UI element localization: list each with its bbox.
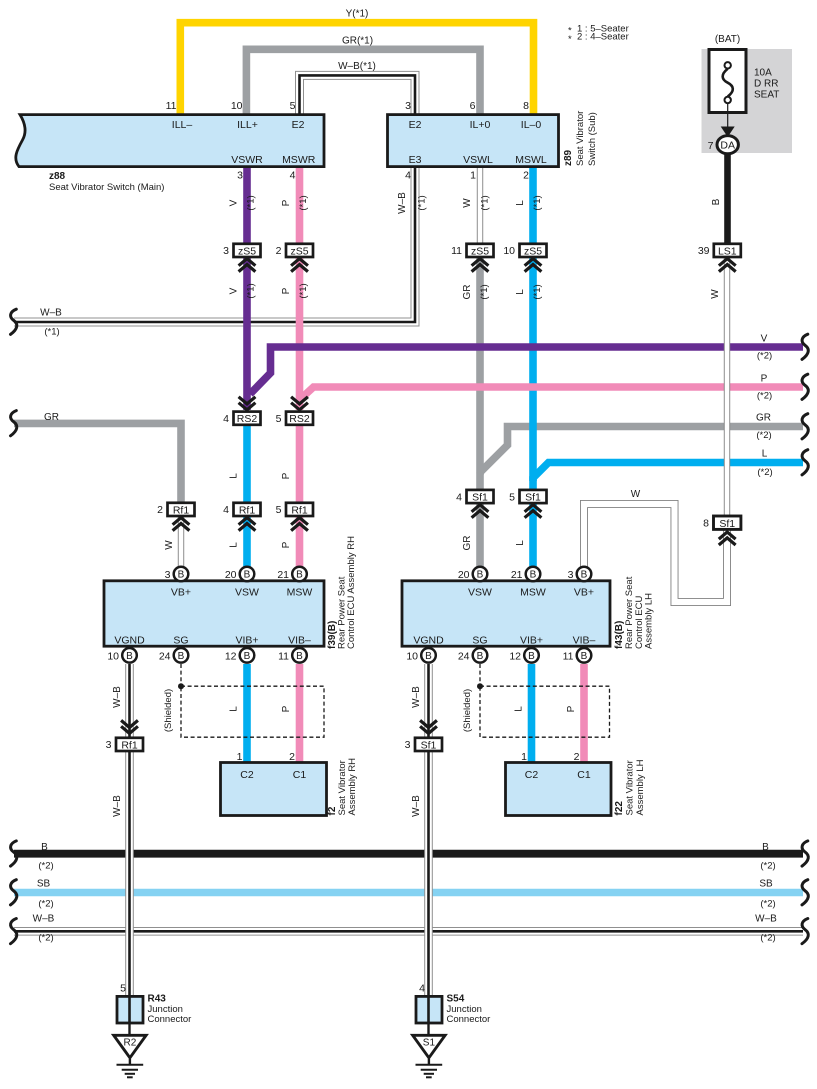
chevron below Sf1-8 <box>719 532 736 545</box>
svg-text:10: 10 <box>107 651 119 663</box>
connector 8 Sf1 box <box>714 516 741 529</box>
svg-text:RS2: RS2 <box>237 413 258 425</box>
ECU LH pin circle 24 B <box>473 648 488 663</box>
connector 10 zS5 box <box>520 244 547 257</box>
svg-text:Sf1: Sf1 <box>525 492 541 504</box>
connector 4 RS2 box <box>234 412 261 425</box>
svg-text:L: L <box>515 200 526 206</box>
connector 3 zS5 box <box>234 244 261 257</box>
shield junction dot RH <box>178 683 184 689</box>
svg-text:MSW: MSW <box>520 587 546 599</box>
svg-text:W–B: W–B <box>397 192 408 214</box>
wire W-B(*1) from z89 pin 4 to left break <box>14 164 415 322</box>
svg-text:GR: GR <box>756 413 771 424</box>
svg-text:W–B: W–B <box>411 686 422 708</box>
svg-text:10: 10 <box>503 245 515 257</box>
ECU RH pin circle 12 B <box>240 648 255 663</box>
svg-text:(*2): (*2) <box>760 860 775 871</box>
svg-text:C2: C2 <box>240 769 254 781</box>
svg-text:zS5: zS5 <box>524 245 542 257</box>
svg-text:4: 4 <box>456 491 462 503</box>
switch z89 box <box>388 115 559 167</box>
battery area background <box>702 49 793 153</box>
svg-text:(*2): (*2) <box>757 390 772 401</box>
svg-text:4: 4 <box>419 983 425 995</box>
ECU LH pin circle 12 B <box>524 648 539 663</box>
svg-text:1: 1 <box>521 751 527 763</box>
svg-text:P: P <box>281 287 292 294</box>
wire W-B from ECU RH VGND to Rf1-3 <box>125 664 134 738</box>
junction connector S54 box <box>416 996 442 1023</box>
break symbol W-B bus right <box>802 919 808 944</box>
svg-text:2 : 4–Seater: 2 : 4–Seater <box>577 32 629 43</box>
ECU RH pin circle 20 B <box>240 567 255 582</box>
svg-text:Rf1: Rf1 <box>121 739 138 751</box>
svg-text:ILL–: ILL– <box>172 119 193 131</box>
svg-text:(*1): (*1) <box>298 283 309 298</box>
svg-text:4: 4 <box>223 504 229 516</box>
svg-text:MSW: MSW <box>287 587 313 599</box>
svg-text:P: P <box>761 374 768 385</box>
svg-text:(*1): (*1) <box>532 284 543 299</box>
wire stripe through R43 <box>128 996 131 1023</box>
wire GR from left break to connector Rf1-2 <box>14 423 181 503</box>
svg-text:L: L <box>515 289 526 295</box>
svg-text:L: L <box>229 473 240 479</box>
svg-text:z89: z89 <box>563 149 574 166</box>
svg-text:S1: S1 <box>423 1037 436 1048</box>
svg-text:Control ECU Assembly RH: Control ECU Assembly RH <box>346 536 357 649</box>
shield dashed line from SG LH <box>479 664 481 685</box>
svg-text:W: W <box>710 289 721 299</box>
ECU LH pin circle 20 B <box>473 567 488 582</box>
svg-text:SB: SB <box>759 878 773 889</box>
wire from R43 to ground triangle R2 <box>128 1023 130 1035</box>
svg-text:4: 4 <box>405 170 411 182</box>
wire P pink from z88 pin 4 through zS5-2 to RS2-5 with P(*2) branch <box>300 165 804 567</box>
wire GR from Sf1-4 to ECU LH pin 20 <box>476 504 484 568</box>
svg-text:(*2): (*2) <box>38 898 53 909</box>
svg-text:Assembly RH: Assembly RH <box>347 758 358 816</box>
svg-text:L: L <box>229 706 240 712</box>
ECU LH pin circle 21 B <box>526 567 541 582</box>
chevron above RS2-4 <box>239 397 256 410</box>
svg-text:11: 11 <box>166 100 177 112</box>
break symbol B bus left <box>11 841 17 866</box>
svg-text:1: 1 <box>237 751 243 763</box>
ECU RH pin circle 21 B <box>292 567 307 582</box>
svg-text:W: W <box>462 198 473 208</box>
wire W-B from ECU LH VGND to Sf1-3 <box>424 664 433 738</box>
connector 4 Rf1 box <box>234 503 261 516</box>
svg-text:1: 1 <box>470 170 476 182</box>
switch z88 box <box>16 115 324 167</box>
svg-text:Seat Vibrator Switch (Main): Seat Vibrator Switch (Main) <box>49 182 164 193</box>
chevron below Sf1-4 <box>472 505 489 518</box>
svg-text:V: V <box>229 287 240 294</box>
junction connector R43 box <box>117 996 143 1023</box>
ground symbol below S1 <box>416 1059 443 1077</box>
wire W-B from Sf1-3 down through buses to S54 <box>424 751 433 997</box>
svg-text:7: 7 <box>708 140 714 152</box>
bus wire B (*2) <box>14 850 803 858</box>
connector 39 LS1 box <box>714 244 741 257</box>
svg-text:2: 2 <box>574 751 580 763</box>
svg-text:SEAT: SEAT <box>754 90 779 101</box>
svg-text:Connector: Connector <box>148 1014 192 1025</box>
shield dashed line from SG RH <box>180 664 182 685</box>
svg-text:(BAT): (BAT) <box>715 34 740 45</box>
seat vibrator assembly RH box f2 <box>221 763 327 816</box>
svg-text:2: 2 <box>157 504 163 516</box>
svg-text:W–B: W–B <box>112 795 123 817</box>
svg-text:6: 6 <box>470 100 476 112</box>
svg-text:GR: GR <box>44 412 59 423</box>
ECU RH pin circle 11 B <box>292 648 307 663</box>
svg-text:B: B <box>41 842 48 853</box>
svg-text:MSWL: MSWL <box>515 154 547 166</box>
seat vibrator assembly LH box f22 <box>506 763 612 816</box>
svg-text:21: 21 <box>277 569 289 581</box>
svg-text:VIB–: VIB– <box>573 635 596 647</box>
svg-text:(*2): (*2) <box>757 467 772 478</box>
svg-text:f22: f22 <box>614 801 625 816</box>
fuse bottom terminal circle <box>725 97 731 103</box>
svg-text:8: 8 <box>523 100 529 112</box>
wire Y(*1) from z88 pin 11 to z89 pin 8 <box>180 23 533 115</box>
svg-text:3: 3 <box>223 245 229 257</box>
break symbol SB bus left <box>11 880 17 905</box>
svg-text:20: 20 <box>225 569 237 581</box>
svg-text:5: 5 <box>290 100 296 112</box>
chevron below Sf1-5 <box>525 505 542 518</box>
svg-text:W–B: W–B <box>33 913 55 924</box>
wire W white from z89 pin 1 VSWL to zS5-11 <box>477 165 483 244</box>
svg-text:3: 3 <box>106 739 112 751</box>
svg-text:RS2: RS2 <box>289 413 310 425</box>
svg-text:24: 24 <box>159 651 171 663</box>
svg-text:Seat Vibrator: Seat Vibrator <box>575 111 586 166</box>
ECU LH pin circle 3 B <box>577 567 592 582</box>
svg-text:(Shielded): (Shielded) <box>462 689 473 732</box>
ECU RH pin circle 3 B <box>174 567 189 582</box>
fuse top terminal circle <box>725 62 731 68</box>
svg-text:21: 21 <box>511 569 523 581</box>
svg-text:SG: SG <box>173 635 188 647</box>
wire W white below Rf1-2 to ECU RH pin 3 <box>178 516 184 567</box>
fuse element curve <box>723 69 733 97</box>
svg-text:VIB–: VIB– <box>288 635 311 647</box>
connector 2 Rf1 box <box>168 503 195 516</box>
svg-text:VGND: VGND <box>413 635 444 647</box>
wire W-B from Rf1-3 down through buses to R43 <box>125 751 134 997</box>
svg-text:C2: C2 <box>525 769 539 781</box>
svg-text:2: 2 <box>523 170 529 182</box>
svg-text:Assembly LH: Assembly LH <box>644 593 655 649</box>
connector 3 Rf1 box <box>116 738 143 751</box>
shield dashed box RH <box>181 686 324 737</box>
svg-text:B: B <box>762 842 769 853</box>
wire stripe through S54 <box>427 996 430 1023</box>
break symbol GR left <box>11 411 17 436</box>
svg-text:3: 3 <box>405 739 411 751</box>
svg-text:2: 2 <box>289 751 295 763</box>
svg-text:5: 5 <box>276 504 282 516</box>
svg-text:24: 24 <box>458 651 470 663</box>
svg-text:12: 12 <box>225 651 237 663</box>
svg-text:Assembly LH: Assembly LH <box>635 759 646 815</box>
bus wire W-B (*2) <box>14 927 803 936</box>
svg-text:P: P <box>281 472 292 479</box>
svg-text:3: 3 <box>237 170 243 182</box>
svg-text:ILL+: ILL+ <box>237 119 258 131</box>
ground triangle S1 <box>413 1035 445 1058</box>
svg-text:S54: S54 <box>447 994 465 1005</box>
svg-text:5: 5 <box>120 983 126 995</box>
svg-text:Switch (Sub): Switch (Sub) <box>587 112 598 166</box>
svg-text:(*2): (*2) <box>38 932 53 943</box>
svg-text:3: 3 <box>405 100 411 112</box>
svg-text:(*2): (*2) <box>760 898 775 909</box>
svg-text:L: L <box>762 449 768 460</box>
svg-text:Y(*1): Y(*1) <box>346 8 369 19</box>
svg-text:3: 3 <box>568 569 574 581</box>
svg-text:(Shielded): (Shielded) <box>163 689 174 732</box>
svg-text:MSWR: MSWR <box>282 154 316 166</box>
break symbol B bus right <box>802 841 808 866</box>
chevron below Rf1-5 <box>291 518 308 531</box>
svg-text:4: 4 <box>223 413 229 425</box>
svg-text:DA: DA <box>720 140 735 152</box>
svg-text:W–B: W–B <box>411 795 422 817</box>
svg-text:(*1): (*1) <box>246 283 257 298</box>
break symbol W-B(*1) left <box>11 309 17 334</box>
svg-text:GR: GR <box>462 536 473 551</box>
svg-text:VGND: VGND <box>114 635 145 647</box>
svg-text:W: W <box>631 489 641 500</box>
chevron below zS5-11 <box>472 259 489 272</box>
break symbol V right <box>802 334 808 359</box>
svg-text:D RR: D RR <box>754 79 778 90</box>
svg-text:L: L <box>515 540 526 546</box>
svg-text:(*1): (*1) <box>298 195 309 210</box>
svg-text:E3: E3 <box>409 154 422 166</box>
svg-text:W–B: W–B <box>755 913 777 924</box>
svg-text:P: P <box>281 199 292 206</box>
svg-text:IL+0: IL+0 <box>470 119 491 131</box>
svg-text:R43: R43 <box>148 994 167 1005</box>
svg-text:(*2): (*2) <box>757 350 772 361</box>
wire L cyan RS2-4 to Rf1-4 to ECU RH pin 20 <box>243 424 251 567</box>
svg-text:Rf1: Rf1 <box>239 504 256 516</box>
chevron below zS5-3 <box>239 259 256 272</box>
svg-text:VSW: VSW <box>235 587 259 599</box>
wire L cyan ECU LH VIB+ to vibrator LH C2 <box>528 664 536 763</box>
arrow into DA <box>721 127 735 138</box>
svg-text:5: 5 <box>276 413 282 425</box>
break symbol L right <box>802 450 808 475</box>
svg-text:5: 5 <box>509 491 515 503</box>
svg-text:L: L <box>514 706 525 712</box>
svg-text:(*1): (*1) <box>532 195 543 210</box>
svg-text:(*1): (*1) <box>246 195 257 210</box>
svg-text:(*1): (*1) <box>417 195 428 210</box>
svg-text:zS5: zS5 <box>290 245 308 257</box>
svg-text:3: 3 <box>165 569 171 581</box>
break symbol SB bus right <box>802 880 808 905</box>
svg-text:12: 12 <box>509 651 521 663</box>
svg-text:8: 8 <box>703 518 709 530</box>
connector 5 Rf1 box <box>286 503 313 516</box>
svg-text:(*1): (*1) <box>480 195 491 210</box>
svg-text:V: V <box>229 199 240 206</box>
ECU LH pin circle 10 B <box>421 648 436 663</box>
svg-text:B: B <box>711 198 722 205</box>
svg-text:W–B(*1): W–B(*1) <box>338 61 376 72</box>
svg-text:VSW: VSW <box>468 587 492 599</box>
svg-text:LS1: LS1 <box>718 245 737 257</box>
svg-text:VB+: VB+ <box>574 587 594 599</box>
connector 5 Sf1 box <box>520 490 547 503</box>
connector 11 zS5 box <box>467 244 494 257</box>
svg-text:P: P <box>281 705 292 712</box>
svg-text:V: V <box>761 334 768 345</box>
svg-text:W–B: W–B <box>112 686 123 708</box>
svg-text:C1: C1 <box>293 769 307 781</box>
svg-text:VSWR: VSWR <box>231 154 263 166</box>
svg-text:z88: z88 <box>49 171 66 182</box>
svg-text:GR: GR <box>462 285 473 300</box>
svg-text:(*2): (*2) <box>760 932 775 943</box>
svg-text:4: 4 <box>290 170 296 182</box>
svg-text:Rf1: Rf1 <box>173 504 190 516</box>
chevron below zS5-10 <box>525 259 542 272</box>
svg-text:Seat Vibrator: Seat Vibrator <box>625 760 636 815</box>
svg-text:VB+: VB+ <box>171 587 191 599</box>
svg-text:10: 10 <box>406 651 418 663</box>
wire from S54 to ground triangle S1 <box>427 1023 429 1035</box>
svg-text:W: W <box>164 540 175 550</box>
wire GR(*2) branch from right break merging into GR column <box>480 258 803 492</box>
svg-text:Sf1: Sf1 <box>719 518 735 530</box>
connector 3 Sf1 box <box>415 738 442 751</box>
svg-text:10: 10 <box>231 100 243 112</box>
svg-text:SB: SB <box>37 878 51 889</box>
svg-text:*: * <box>568 34 572 45</box>
wire W white from LS1 down to Sf1-8 <box>724 258 730 516</box>
ECU LH box f43(B) <box>402 581 610 646</box>
svg-text:11: 11 <box>563 651 574 663</box>
break symbol P right <box>802 374 808 399</box>
ECU LH pin circle 11 B <box>577 648 592 663</box>
shield junction dot LH <box>477 683 483 689</box>
wire W-B(*1) top loop from z88 pin 5 to z89 pin 3 <box>300 75 416 116</box>
chevron above RS2-5 <box>291 397 308 410</box>
svg-text:20: 20 <box>458 569 470 581</box>
svg-text:IL–0: IL–0 <box>521 119 542 131</box>
bus wire SB (*2) <box>14 889 803 896</box>
svg-text:C1: C1 <box>577 769 591 781</box>
wire P pink ECU LH VIB- to vibrator LH C1 <box>580 664 588 763</box>
svg-text:(*1): (*1) <box>44 327 59 338</box>
svg-text:R2: R2 <box>124 1037 137 1048</box>
svg-text:Sf1: Sf1 <box>472 492 488 504</box>
ground triangle R2 <box>114 1035 146 1058</box>
wire GR(*1) from z88 pin 10 to z89 pin 6 <box>246 49 480 115</box>
svg-text:GR(*1): GR(*1) <box>342 36 373 47</box>
svg-text:10A: 10A <box>754 68 772 79</box>
svg-text:zS5: zS5 <box>471 245 489 257</box>
chevron below zS5-2 <box>291 259 308 272</box>
svg-text:zS5: zS5 <box>238 245 256 257</box>
svg-text:11: 11 <box>278 651 289 663</box>
svg-text:P: P <box>281 541 292 548</box>
svg-text:E2: E2 <box>409 119 422 131</box>
svg-text:Rf1: Rf1 <box>291 504 308 516</box>
ground symbol below R2 <box>117 1059 144 1077</box>
connector 2 zS5 box <box>286 244 313 257</box>
svg-text:VIB+: VIB+ <box>520 635 543 647</box>
ECU RH box f39(B) <box>104 581 324 646</box>
connector 5 RS2 box <box>286 412 313 425</box>
wire B black from battery DA to LS1 <box>724 150 731 244</box>
svg-text:E2: E2 <box>292 119 305 131</box>
svg-text:(*1): (*1) <box>479 284 490 299</box>
break symbol W-B bus left <box>11 919 17 944</box>
wire L cyan ECU RH VIB+ to vibrator RH C2 <box>243 664 251 763</box>
ECU RH pin circle 24 B <box>174 648 189 663</box>
shield dashed box LH <box>480 686 610 737</box>
svg-text:L: L <box>229 542 240 548</box>
connector 4 Sf1 box <box>467 490 494 503</box>
svg-text:P: P <box>566 705 577 712</box>
chevron above Sf1-3 <box>420 720 437 733</box>
svg-text:W–B: W–B <box>40 308 62 319</box>
svg-text:11: 11 <box>451 245 462 257</box>
chevron below LS1 <box>719 259 736 272</box>
ECU RH pin circle 10 B <box>122 648 137 663</box>
wire P pink ECU RH VIB- to vibrator RH C1 <box>296 664 304 763</box>
svg-text:(*2): (*2) <box>38 860 53 871</box>
wire W white loop from Sf1-8 to ECU LH pin 3 VB+ <box>584 504 727 602</box>
break symbol GR right <box>802 414 808 439</box>
wire L(*2) branch from right break merging into L LH column <box>533 165 803 567</box>
svg-text:(*2): (*2) <box>756 430 771 441</box>
svg-text:Connector: Connector <box>447 1014 491 1025</box>
wire V purple from z88 pin 3 through zS5-3 to RS2-4 with V(*2) branch <box>247 165 803 410</box>
connector 7 DA oval <box>717 136 738 154</box>
svg-text:SG: SG <box>472 635 487 647</box>
wire from fuse to DA arrow <box>727 103 729 127</box>
svg-text:Sf1: Sf1 <box>421 739 437 751</box>
chevron above Rf1-3 <box>121 720 138 733</box>
fuse box 10A D RR SEAT <box>709 50 746 113</box>
svg-text:39: 39 <box>698 245 710 257</box>
chevron below Rf1-4 <box>239 518 256 531</box>
svg-text:VIB+: VIB+ <box>235 635 258 647</box>
svg-text:VSWL: VSWL <box>463 154 493 166</box>
chevron below Rf1-2 <box>173 518 190 531</box>
svg-text:2: 2 <box>276 245 282 257</box>
